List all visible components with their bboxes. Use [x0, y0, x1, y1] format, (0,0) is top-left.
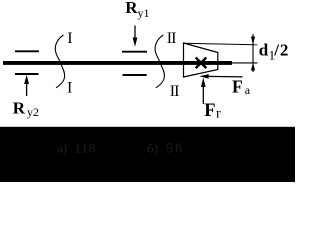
svg-text:r: r	[216, 107, 221, 122]
dimension extension line (top of gear)	[184, 43, 258, 45]
centerline extension right of shaft	[232, 62, 258, 64]
svg-text:R: R	[125, 0, 138, 17]
svg-text:R: R	[13, 98, 26, 117]
shaft	[3, 61, 232, 65]
force arrow Ry2	[24, 75, 29, 96]
svg-text:/2: /2	[273, 41, 289, 60]
section curve II	[155, 35, 164, 88]
node X (force application point)	[196, 58, 207, 69]
bevel gear (trapezoid)	[184, 43, 218, 77]
svg-text:а): а)	[57, 140, 67, 155]
svg-text:I: I	[67, 30, 72, 47]
svg-text:I: I	[67, 79, 72, 96]
bearing I bottom tick	[15, 73, 39, 75]
force arrow Fa	[199, 74, 242, 79]
force arrow Ry1	[133, 25, 138, 46]
force arrow Fr	[201, 78, 206, 104]
svg-text:II: II	[170, 83, 179, 100]
dimension line d1/2	[251, 34, 255, 72]
svg-text:56: 56	[166, 142, 184, 157]
svg-text:F: F	[204, 101, 215, 121]
svg-text:y1: y1	[138, 6, 150, 20]
bearing II bottom tick	[123, 74, 147, 76]
bearing II top tick	[122, 51, 147, 53]
svg-text:a: a	[245, 83, 251, 97]
svg-text:II: II	[167, 30, 176, 47]
svg-text:d: d	[259, 41, 269, 60]
svg-text:y2: y2	[27, 105, 39, 119]
svg-text:118: 118	[74, 140, 95, 155]
section curve I	[55, 35, 64, 88]
svg-text:б): б)	[147, 141, 158, 156]
black bar (bottom)	[0, 127, 295, 182]
svg-text:F: F	[232, 77, 243, 97]
bearing I top tick	[15, 50, 39, 52]
